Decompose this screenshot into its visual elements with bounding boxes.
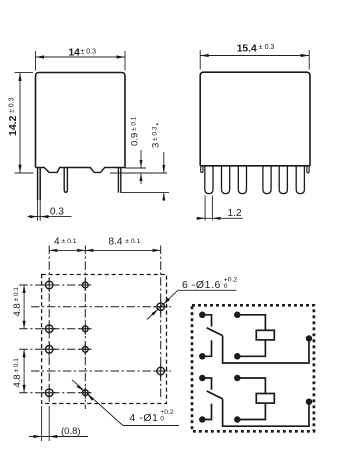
svg-text:± 0.1: ± 0.1	[13, 358, 20, 373]
svg-text:± 0.3: ± 0.3	[81, 48, 97, 55]
svg-text:± 0.3: ± 0.3	[259, 44, 275, 51]
svg-text:0.9: 0.9	[130, 133, 141, 146]
svg-text:4 -Ø1: 4 -Ø1	[130, 413, 159, 424]
svg-text:0: 0	[160, 416, 164, 423]
svg-text:± 0.1: ± 0.1	[131, 116, 138, 131]
svg-text:1.2: 1.2	[228, 208, 242, 219]
svg-text:4.8: 4.8	[12, 374, 23, 387]
svg-text:14: 14	[69, 47, 81, 58]
svg-text:± 0.1: ± 0.1	[13, 287, 20, 302]
svg-text:6 -Ø1.6: 6 -Ø1.6	[182, 280, 221, 291]
svg-text:± 0.3: ± 0.3	[152, 126, 159, 141]
svg-text:± 0.3: ± 0.3	[9, 97, 16, 113]
svg-text:0: 0	[224, 283, 228, 290]
svg-text:3: 3	[151, 143, 162, 148]
svg-text:14.2: 14.2	[7, 115, 19, 136]
svg-text:± 0.1: ± 0.1	[62, 238, 77, 245]
svg-text:± 0.1: ± 0.1	[125, 238, 140, 245]
svg-text:8.4: 8.4	[109, 236, 123, 247]
svg-text:4.8: 4.8	[12, 303, 23, 316]
svg-text:(0.8): (0.8)	[61, 426, 81, 437]
svg-text:0.3: 0.3	[50, 207, 64, 218]
svg-text:15.4: 15.4	[237, 43, 257, 54]
svg-text:4: 4	[54, 236, 60, 247]
